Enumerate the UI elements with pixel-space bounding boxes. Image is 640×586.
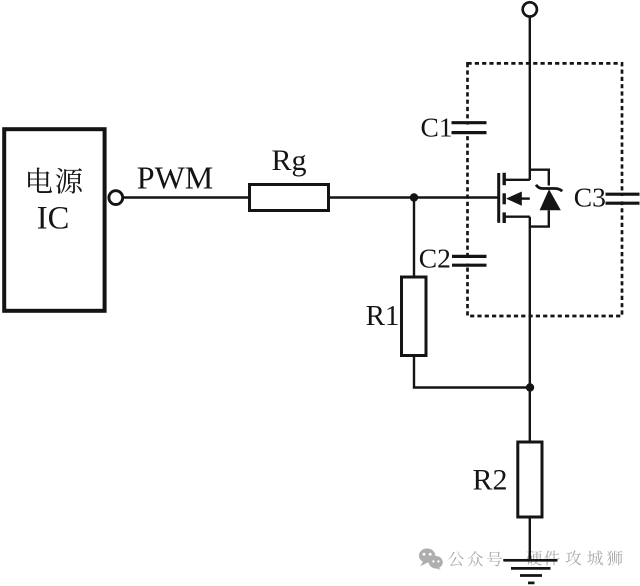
ground symbol <box>503 560 557 583</box>
watermark text 公众号 <box>448 551 502 566</box>
PWM output terminal circle <box>109 191 123 205</box>
body diode top jog <box>530 170 549 186</box>
resistor R1 <box>402 277 427 356</box>
wire top terminal to drain <box>529 17 531 180</box>
capacitor C2 mask <box>462 258 474 263</box>
terminal circle top (drain supply) <box>523 2 537 16</box>
wire R1 bottom to source node <box>414 356 530 388</box>
watermark text 硬件攻城狮 <box>526 550 622 565</box>
resistor Rg <box>250 185 329 211</box>
MOSFET Q1 gate bar <box>497 173 500 223</box>
wire gate node down to R1 <box>413 198 415 278</box>
MOSFET body stub with arrow <box>518 197 530 199</box>
svg-text:IC: IC <box>37 201 70 237</box>
svg-text:PWM: PWM <box>137 160 213 196</box>
svg-text:C3: C3 <box>574 182 606 213</box>
IC box 电源IC <box>4 129 104 311</box>
capacitor C3 <box>606 194 640 203</box>
svg-text:R2: R2 <box>472 464 507 497</box>
svg-text:C1: C1 <box>420 112 452 143</box>
MOSFET source stub <box>505 215 530 217</box>
capacitor C1 mask <box>462 125 474 131</box>
capacitor C1 <box>452 123 487 133</box>
wire source down through node to R2 <box>529 217 531 441</box>
junction source node <box>526 383 534 391</box>
watermark dash <box>503 559 529 561</box>
MOSFET drain stub <box>505 179 530 181</box>
svg-text:R1: R1 <box>366 300 400 332</box>
MOSFET body arrow <box>506 192 522 206</box>
body diode bottom jog <box>530 210 549 226</box>
wire PWM terminal to Rg <box>123 196 249 198</box>
IC box label 电源 <box>28 168 82 194</box>
body diode triangle <box>540 189 561 210</box>
capacitor C2 <box>452 256 487 265</box>
body diode cathode bar <box>536 185 562 191</box>
svg-text:Rg: Rg <box>271 144 306 177</box>
capacitor C3 mask <box>616 196 628 201</box>
dashed box (MOSFET parasitic model) <box>468 63 623 316</box>
wire Rg to gate node <box>329 196 499 198</box>
watermark WeChat icon <box>419 549 443 570</box>
svg-text:C2: C2 <box>419 243 451 274</box>
resistor R2 <box>518 442 542 517</box>
junction gate node <box>410 193 418 201</box>
wire R2 to ground <box>529 518 531 560</box>
MOSFET Q1 channel bar segments <box>503 173 506 223</box>
